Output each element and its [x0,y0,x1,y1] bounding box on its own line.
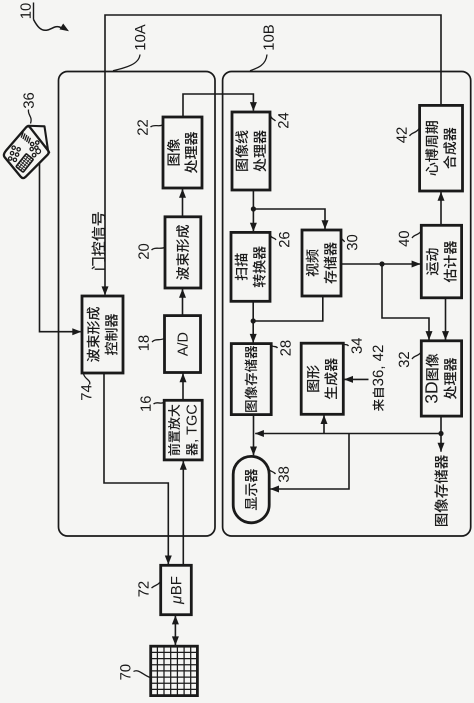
label 40 [399,231,409,247]
block 16 preamp TGC [164,400,202,460]
block 40 motion estimator [421,225,461,298]
block 26 scan converter [231,232,270,301]
leader 16 [154,403,164,405]
block 42 heart cycle synthesizer [420,105,463,191]
wire 32 to image memory [440,416,442,452]
block 22 image processor [163,117,202,188]
wire gating 42 to 74 [105,15,441,295]
wire 36 to 74 [40,153,81,332]
leader 42 [410,129,420,137]
leader 10A [113,55,140,71]
block 28 image memory [231,344,271,415]
label 38 [278,467,288,482]
wire junction to 32 right upper [382,264,429,340]
label 30 [347,235,357,250]
wire 28 to 38 [253,415,255,456]
label 18 [138,336,148,351]
wire riser branch to 38 bottom [270,434,349,490]
wire 30 to 40 [341,263,421,265]
wire 70 to 72 double [174,616,176,646]
label 42 [396,128,406,143]
block 18 A/D [165,316,201,373]
leader 74 [84,374,90,385]
leader 72 [152,582,161,588]
wire riser 32 junction up [255,433,441,435]
wire 26 to 28 [252,301,254,343]
leader 10B [250,55,267,71]
transducer array 70 (grid) [151,646,198,695]
leader 24 [271,116,276,122]
leader 40 [412,232,421,239]
label 图像存储器 image memory [434,455,448,526]
junction 26-28 [251,318,256,323]
leader 26 [271,236,277,241]
label 74 [81,385,91,400]
leader 32 [412,353,421,360]
block 72 uBF microbeamformer [161,565,192,614]
wire 74 to 72 [104,373,168,564]
leader 30 [341,238,344,243]
label 72 [138,582,148,597]
wire riser branch to 34 [323,415,325,433]
label 34 [351,338,361,353]
label 来自36, 42 [373,345,385,411]
leader 34 [344,344,349,346]
wire 18 to 20 [182,289,184,316]
label 10 [20,3,30,18]
junction 32 output [438,431,443,436]
wire from 36,42 into 34 [344,378,368,380]
label 28 [280,341,290,356]
label 32 [399,352,409,367]
leader 38 [268,468,276,475]
leader 70 [134,671,151,678]
user interface device icon 36 [0,117,60,181]
system box 10A [59,72,216,537]
wire junction to 30 right [253,209,325,229]
system box 10B [223,72,471,537]
block 74 beamform controller [82,296,123,373]
squiggly arrow from 10 [34,20,64,31]
label 10A [135,24,145,49]
wire 16 to 18 [182,373,184,400]
block 32 3D image processor [421,341,461,416]
label 26 [279,232,289,247]
label 36 [23,93,33,108]
block 24 image line processor [232,112,270,190]
leader 20 [152,248,165,251]
wire 20 to 22 [182,189,184,217]
leader 22 [151,125,163,127]
block 30 video memory [302,230,341,296]
wire 72 to 16 [182,461,184,565]
label 22 [137,120,147,135]
label 10B [263,25,273,49]
block 20 beamformer [165,217,201,288]
label 20 [138,244,148,259]
block 34 graphics generator [301,343,343,414]
label 70 [120,665,130,680]
wire junction to 30 left [253,295,323,321]
wire 22 to 24 [183,94,253,117]
leader 36 [28,110,31,124]
leader 18 [152,339,164,343]
label 24 [278,113,288,128]
wire 40 to 32 [445,298,447,340]
junction 24-26 [251,206,256,211]
label 16 [140,396,150,411]
wire 24 to 26 [252,190,254,232]
wire 40 to 42 [440,192,442,226]
label 门控信号 [91,212,105,270]
junction 30-40 [379,261,384,266]
block 38 display (rounded) [233,456,269,522]
leader 28 [272,346,278,349]
